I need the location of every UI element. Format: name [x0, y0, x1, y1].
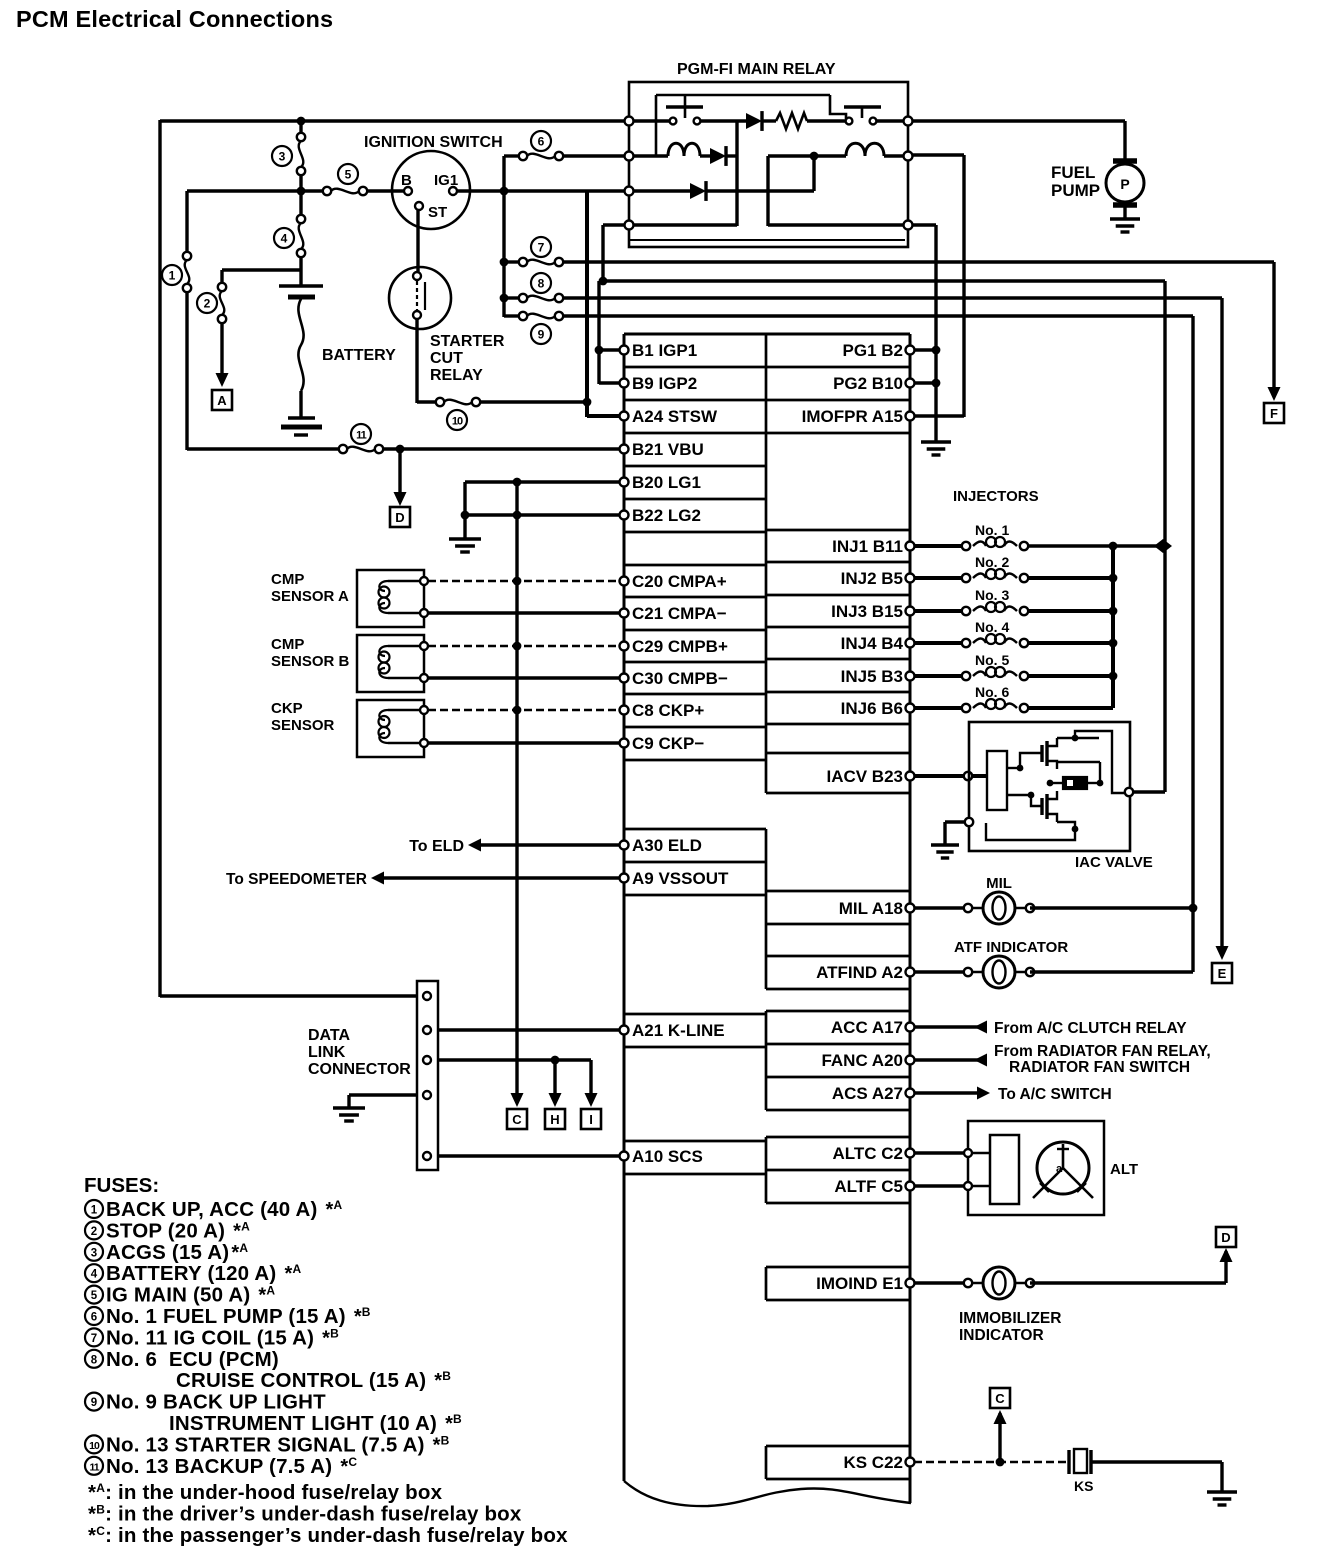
svg-text:FUSES:: FUSES:: [84, 1174, 159, 1197]
svg-text:F: F: [1270, 406, 1278, 421]
svg-text:ACC A17: ACC A17: [831, 1018, 903, 1037]
svg-text:PUMP: PUMP: [1051, 181, 1100, 200]
svg-text:CKP: CKP: [271, 700, 303, 717]
svg-text:CMP: CMP: [271, 571, 304, 588]
svg-text:IG MAIN (50 A)*A: IG MAIN (50 A)*A: [106, 1284, 275, 1307]
svg-text:A10 SCS: A10 SCS: [632, 1147, 703, 1166]
svg-text:No. 6: No. 6: [975, 684, 1009, 700]
svg-text:ALTF C5: ALTF C5: [834, 1177, 903, 1196]
svg-text:IAC VALVE: IAC VALVE: [1075, 854, 1153, 871]
svg-text:KS: KS: [1074, 1478, 1093, 1494]
svg-text:a: a: [1056, 1163, 1063, 1175]
svg-text:C21 CMPA−: C21 CMPA−: [632, 604, 727, 623]
svg-text:ACGS (15 A)*A: ACGS (15 A)*A: [106, 1241, 248, 1264]
svg-text:D: D: [395, 510, 404, 525]
svg-text:No. 6 ECU (PCM): No. 6 ECU (PCM): [106, 1348, 279, 1371]
svg-text:PCM Electrical Connections: PCM Electrical Connections: [16, 6, 333, 32]
svg-text:IGNITION SWITCH: IGNITION SWITCH: [364, 134, 503, 151]
svg-text:9: 9: [91, 1397, 97, 1409]
svg-text:IMMOBILIZER: IMMOBILIZER: [959, 1310, 1061, 1327]
svg-text:ALT: ALT: [1110, 1161, 1138, 1178]
svg-text:1: 1: [169, 269, 176, 283]
svg-text:INJECTORS: INJECTORS: [953, 488, 1039, 505]
svg-text:5: 5: [345, 168, 352, 182]
svg-text:*B: in the driver’s under-dash: *B: in the driver’s under-dash fuse/rela…: [88, 1503, 522, 1526]
svg-text:H: H: [550, 1112, 559, 1127]
svg-text:INSTRUMENT LIGHT (10 A)*B: INSTRUMENT LIGHT (10 A)*B: [169, 1412, 462, 1435]
svg-text:A9 VSSOUT: A9 VSSOUT: [632, 869, 729, 888]
svg-text:A30 ELD: A30 ELD: [632, 836, 702, 855]
svg-text:INJ1 B11: INJ1 B11: [832, 537, 903, 556]
svg-text:To SPEEDOMETER: To SPEEDOMETER: [226, 871, 367, 888]
svg-text:No. 13 BACKUP (7.5 A)*C: No. 13 BACKUP (7.5 A)*C: [106, 1455, 357, 1478]
svg-text:1: 1: [91, 1205, 98, 1217]
svg-text:ATF INDICATOR: ATF INDICATOR: [954, 939, 1068, 956]
svg-text:IACV B23: IACV B23: [826, 767, 903, 786]
svg-text:C9 CKP−: C9 CKP−: [632, 734, 704, 753]
svg-text:ACS A27: ACS A27: [832, 1084, 903, 1103]
svg-text:ATFIND A2: ATFIND A2: [816, 963, 903, 982]
svg-text:11: 11: [356, 430, 367, 442]
svg-text:C: C: [512, 1112, 522, 1127]
svg-text:2: 2: [91, 1226, 97, 1238]
svg-text:7: 7: [91, 1333, 97, 1345]
svg-text:B20 LG1: B20 LG1: [632, 473, 701, 492]
svg-text:To ELD: To ELD: [409, 838, 464, 855]
svg-text:*A: in the under-hood fuse/rel: *A: in the under-hood fuse/relay box: [88, 1481, 443, 1504]
svg-text:B9 IGP2: B9 IGP2: [632, 374, 697, 393]
svg-text:CRUISE CONTROL (15 A)*B: CRUISE CONTROL (15 A)*B: [176, 1369, 451, 1392]
svg-text:LINK: LINK: [308, 1044, 346, 1061]
svg-text:4: 4: [281, 232, 288, 246]
svg-text:No. 9 BACK UP LIGHT: No. 9 BACK UP LIGHT: [106, 1391, 326, 1414]
svg-text:P: P: [1120, 176, 1129, 192]
svg-text:B1 IGP1: B1 IGP1: [632, 341, 697, 360]
svg-text:9: 9: [538, 328, 545, 342]
svg-text:CONNECTOR: CONNECTOR: [308, 1061, 411, 1078]
svg-text:A21 K-LINE: A21 K-LINE: [632, 1021, 725, 1040]
svg-text:5: 5: [91, 1290, 98, 1302]
svg-text:INJ6 B6: INJ6 B6: [841, 699, 903, 718]
svg-text:A: A: [217, 393, 227, 408]
svg-text:INJ4 B4: INJ4 B4: [841, 634, 904, 653]
svg-text:DATA: DATA: [308, 1027, 351, 1044]
svg-text:I: I: [589, 1112, 593, 1127]
svg-text:From RADIATOR FAN RELAY,: From RADIATOR FAN RELAY,: [994, 1043, 1211, 1060]
svg-text:C29 CMPB+: C29 CMPB+: [632, 637, 728, 656]
svg-text:No. 13 STARTER SIGNAL (7.5 A)*: No. 13 STARTER SIGNAL (7.5 A)*B: [106, 1433, 450, 1456]
svg-text:INDICATOR: INDICATOR: [959, 1327, 1044, 1344]
svg-text:11: 11: [89, 1461, 99, 1473]
svg-text:PG1 B2: PG1 B2: [843, 341, 903, 360]
svg-text:B21 VBU: B21 VBU: [632, 440, 704, 459]
svg-text:No. 4: No. 4: [975, 619, 1009, 635]
svg-text:10: 10: [89, 1440, 100, 1452]
svg-text:INJ5 B3: INJ5 B3: [841, 667, 903, 686]
svg-text:RELAY: RELAY: [430, 367, 483, 384]
svg-text:3: 3: [279, 150, 286, 164]
svg-text:INJ2 B5: INJ2 B5: [841, 569, 903, 588]
svg-text:MIL A18: MIL A18: [839, 899, 903, 918]
svg-text:No. 1: No. 1: [975, 522, 1009, 538]
svg-text:SENSOR B: SENSOR B: [271, 653, 350, 670]
svg-text:MIL: MIL: [986, 875, 1012, 892]
svg-text:C30 CMPB−: C30 CMPB−: [632, 669, 728, 688]
svg-text:No. 11 IG COIL (15 A)*B: No. 11 IG COIL (15 A)*B: [106, 1326, 339, 1349]
svg-text:E: E: [1218, 966, 1227, 981]
svg-text:RADIATOR FAN SWITCH: RADIATOR FAN SWITCH: [1009, 1059, 1190, 1076]
svg-text:IMOFPR A15: IMOFPR A15: [802, 407, 903, 426]
svg-text:INJ3 B15: INJ3 B15: [831, 602, 903, 621]
svg-text:PG2 B10: PG2 B10: [833, 374, 903, 393]
svg-text:SENSOR A: SENSOR A: [271, 588, 349, 605]
svg-text:C: C: [995, 1391, 1005, 1406]
svg-text:2: 2: [204, 297, 211, 311]
svg-text:A24 STSW: A24 STSW: [632, 407, 718, 426]
svg-text:BATTERY (120 A)*A: BATTERY (120 A)*A: [106, 1262, 301, 1285]
svg-text:SENSOR: SENSOR: [271, 717, 335, 734]
svg-text:No. 5: No. 5: [975, 652, 1009, 668]
svg-text:6: 6: [91, 1312, 97, 1324]
svg-text:No. 1 FUEL PUMP (15 A)*B: No. 1 FUEL PUMP (15 A)*B: [106, 1305, 371, 1328]
svg-text:10: 10: [452, 416, 463, 428]
svg-text:From A/C CLUTCH RELAY: From A/C CLUTCH RELAY: [994, 1020, 1187, 1037]
svg-text:7: 7: [538, 241, 545, 255]
svg-text:D: D: [1221, 1230, 1230, 1245]
svg-text:8: 8: [538, 277, 545, 291]
svg-text:CUT: CUT: [430, 350, 463, 367]
svg-text:PGM-FI MAIN RELAY: PGM-FI MAIN RELAY: [677, 61, 836, 78]
svg-text:C20 CMPA+: C20 CMPA+: [632, 572, 727, 591]
svg-text:No. 3: No. 3: [975, 587, 1009, 603]
svg-text:CMP: CMP: [271, 636, 304, 653]
svg-text:ALTC C2: ALTC C2: [832, 1144, 903, 1163]
svg-text:FANC A20: FANC A20: [821, 1051, 903, 1070]
svg-text:KS C22: KS C22: [843, 1453, 903, 1472]
svg-text:C8 CKP+: C8 CKP+: [632, 701, 704, 720]
svg-text:B22 LG2: B22 LG2: [632, 506, 701, 525]
svg-text:ST: ST: [428, 204, 447, 221]
svg-text:IMOIND E1: IMOIND E1: [816, 1274, 903, 1293]
svg-text:To A/C SWITCH: To A/C SWITCH: [998, 1086, 1112, 1103]
svg-text:*C: in the passenger’s under-d: *C: in the passenger’s under-dash fuse/r…: [88, 1524, 568, 1547]
svg-text:FUEL: FUEL: [1051, 163, 1095, 182]
svg-text:STARTER: STARTER: [430, 333, 505, 350]
svg-text:No. 2: No. 2: [975, 554, 1009, 570]
svg-text:BACK UP, ACC (40 A)*A: BACK UP, ACC (40 A)*A: [106, 1198, 342, 1221]
svg-text:3: 3: [91, 1247, 97, 1259]
svg-text:BATTERY: BATTERY: [322, 347, 396, 364]
svg-text:8: 8: [91, 1354, 98, 1366]
svg-text:4: 4: [91, 1269, 98, 1281]
svg-text:6: 6: [538, 135, 545, 149]
